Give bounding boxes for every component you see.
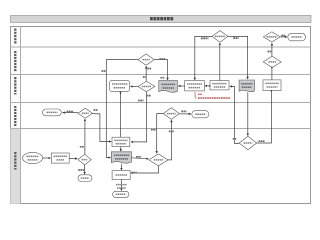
diamond D4 archive xyxy=(263,56,281,67)
box R1 xyxy=(112,137,130,146)
wire D1 left "no" down to Box A xyxy=(195,36,212,80)
title bar xyxy=(11,16,312,23)
callout B1 xyxy=(110,81,130,92)
wire D6b left down to D8 top xyxy=(151,114,163,154)
wire B1 bottom down to R1 (crosses lane 4) xyxy=(120,91,122,137)
box R2 xyxy=(112,171,130,180)
lane label 2 xyxy=(14,51,16,72)
stadium E1 end xyxy=(288,33,306,41)
wire D9 right up into Box D bottom xyxy=(257,91,272,143)
box D xyxy=(263,80,281,91)
wire Doc C bottom down to D9 (crosses lane 4) xyxy=(247,93,249,136)
wire D5 left to B1 xyxy=(131,85,138,87)
wire D8 bottom left into R2 right xyxy=(131,166,158,173)
wire Doc D bottom to R2 xyxy=(120,164,122,170)
document Doc1 gray xyxy=(159,78,178,93)
box B xyxy=(210,81,229,90)
junction at box D bottom xyxy=(271,90,273,92)
wire D2 right yes to end xyxy=(280,36,287,37)
wire box B left to box A xyxy=(205,85,211,87)
lane label 5 xyxy=(14,152,16,170)
stadium E3 end xyxy=(78,175,92,182)
document Doc D gray xyxy=(111,152,131,163)
wire D3 right down into Doc1 xyxy=(154,59,167,80)
wire D5 top up into D3 bottom xyxy=(143,66,152,81)
diamond D1 approval xyxy=(212,31,228,43)
diamond D8 xyxy=(149,154,168,166)
wire D6 left to S1 xyxy=(63,112,78,113)
wire box B top up into D1 bottom xyxy=(219,43,221,81)
diamond D3 qualified? xyxy=(138,54,154,65)
lane5 label cell gray xyxy=(10,129,20,204)
diamond D9 xyxy=(239,136,257,149)
wire R0 to D7 xyxy=(69,158,77,160)
label column divider xyxy=(20,26,22,204)
lane label 3 xyxy=(14,77,16,95)
diamond D2 archive? xyxy=(263,32,280,42)
wire R1 bottom to Doc D xyxy=(120,147,122,152)
box A xyxy=(185,81,205,91)
wire D6b right to E5 xyxy=(179,111,191,114)
wire up from lane4 into D3 left xyxy=(102,60,138,158)
stadium E5 end xyxy=(192,111,209,118)
wire D6 right up-junction xyxy=(93,110,101,114)
wire Doc D right to D8 xyxy=(132,157,149,159)
lane divider y=74.4 xyxy=(10,73,311,75)
wire down from junction to Doc D / R1 xyxy=(100,114,111,142)
diamond D6b xyxy=(163,108,179,120)
document Doc C gray xyxy=(239,80,254,92)
wire D1 right "yes" down to Doc C xyxy=(228,36,248,79)
ellipse E2 start xyxy=(23,152,43,163)
wire D4 bottom to Box D top xyxy=(271,67,273,80)
box R0 xyxy=(51,153,69,163)
wire D7 bottom to E3 xyxy=(78,165,84,174)
wire D7 top up into D6 bottom xyxy=(80,119,85,154)
lane label 1 xyxy=(14,29,16,45)
wire D5 bottom down to R1 right (crosses lane 4) xyxy=(131,92,151,142)
wire R2 bottom to E4 with 2-line label xyxy=(116,180,127,191)
stadium E4 end xyxy=(113,191,129,197)
wire E2 to R0 xyxy=(43,157,51,159)
lane divider y=128.5 xyxy=(10,128,311,130)
wire D9 left up into Box B right xyxy=(230,86,239,143)
diamond D5 review xyxy=(138,81,155,91)
lane divider y=102.4 xyxy=(10,101,311,103)
lane divider y=47 xyxy=(10,46,311,48)
diamond D6 xyxy=(78,108,93,118)
wire box A left to Doc1 xyxy=(178,85,184,87)
wire D4 top up to D2 xyxy=(268,43,272,56)
swimlane frame xyxy=(10,26,311,204)
red annotation xyxy=(194,92,230,99)
lane label 4 xyxy=(14,106,16,126)
diamond D7 xyxy=(78,154,91,165)
wire D8 right up into D6b bottom xyxy=(168,120,174,160)
stadium S1 return-fix xyxy=(43,109,62,116)
